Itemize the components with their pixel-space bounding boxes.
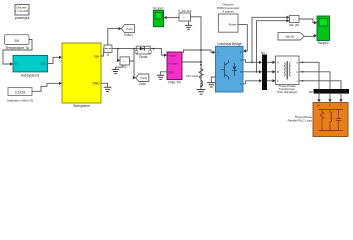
wire V_DC to ground bbox=[188, 21, 190, 25]
goto tag Goto1 bbox=[122, 25, 135, 37]
resistor DC load bbox=[199, 69, 203, 81]
svg-text:50: 50 bbox=[14, 38, 19, 43]
ground (DC load) bbox=[197, 90, 205, 95]
node a out bbox=[302, 62, 304, 64]
diode D1 bbox=[135, 46, 151, 59]
wire temperature to subsystem1 bbox=[3, 40, 32, 65]
svg-text:Filter TN: Filter TN bbox=[168, 80, 181, 84]
scope Scope1 bbox=[153, 6, 164, 26]
wire B1 to transformer C bbox=[267, 80, 274, 82]
three-phase transformer T1 bbox=[276, 56, 300, 94]
svg-text:Parallel RLC Load: Parallel RLC Load bbox=[288, 119, 313, 123]
svg-text:V_DC link: V_DC link bbox=[178, 9, 192, 13]
svg-text:I1: I1 bbox=[107, 53, 110, 57]
svg-text:Subsystem1: Subsystem1 bbox=[21, 74, 40, 78]
subsystem1 (cyan) bbox=[13, 55, 48, 77]
wire V1 to ground bbox=[116, 65, 123, 69]
svg-text:GND: GND bbox=[168, 71, 174, 74]
svg-text:Scope1: Scope1 bbox=[153, 6, 164, 10]
wire V1 output to Goto bbox=[130, 49, 136, 78]
wire V_DC to node bbox=[191, 16, 202, 18]
wire bus to V1 bbox=[118, 49, 119, 61]
node c out bbox=[302, 80, 304, 82]
node dc2 bbox=[200, 61, 202, 63]
svg-text:+ -: + - bbox=[123, 61, 126, 64]
wire B1 to transformer A bbox=[267, 61, 274, 63]
svg-text:Vp+: Vp+ bbox=[94, 55, 100, 59]
ground (bridge) bbox=[208, 83, 215, 87]
svg-text:+ Output: + Output bbox=[168, 62, 178, 65]
constant Irradiation bbox=[7, 88, 33, 103]
wire PWM to bridge g bbox=[238, 25, 247, 51]
svg-text:C: C bbox=[240, 83, 242, 86]
svg-text:B1: B1 bbox=[261, 51, 265, 55]
node dc1 bbox=[200, 49, 202, 51]
powergui block bbox=[15, 5, 30, 21]
node b out bbox=[302, 71, 304, 73]
voltage measurement V1 bbox=[120, 57, 130, 69]
svg-text:[Iout]: [Iout] bbox=[127, 27, 133, 31]
svg-text:Pulses: Pulses bbox=[229, 23, 237, 27]
wire filter GND to ground bbox=[161, 72, 168, 75]
wire Vab_B2 to scope2 bbox=[299, 19, 315, 23]
svg-text:Irradiation (W/m^2): Irradiation (W/m^2) bbox=[7, 98, 33, 102]
svg-text:4 pulses: 4 pulses bbox=[222, 9, 234, 13]
ground (yellow GND) bbox=[104, 87, 111, 91]
constant Temperature Ta bbox=[5, 35, 30, 50]
wire transformer a to B2 bbox=[299, 62, 319, 89]
svg-text:(Two Windings): (Two Windings) bbox=[277, 90, 298, 94]
wire transformer b to B2 bbox=[299, 72, 330, 89]
wire DC node to bridge + bbox=[201, 50, 214, 52]
wire I1 signal to Goto1 bbox=[108, 29, 120, 45]
wire B2 to load B bbox=[329, 94, 331, 101]
svg-text:Diode: Diode bbox=[139, 55, 148, 59]
PWM generator block bbox=[217, 2, 239, 32]
goto tag Vout bbox=[136, 74, 149, 86]
svg-text:Temperature Ta: Temperature Ta bbox=[5, 46, 29, 50]
svg-text:GND: GND bbox=[92, 82, 100, 86]
wire DC-link vertical bbox=[200, 17, 202, 89]
svg-text:DC load: DC load bbox=[186, 74, 197, 78]
node tap B bbox=[256, 71, 258, 73]
svg-text:V1: V1 bbox=[123, 65, 127, 69]
node bus-Vout bbox=[133, 48, 135, 50]
wire Vab_B1 to scope2 bbox=[304, 35, 315, 38]
node dc4 bbox=[200, 85, 202, 87]
ground (V_DC) bbox=[185, 25, 191, 29]
wire V_DC to scope1 bbox=[165, 17, 179, 19]
ground (V1) bbox=[112, 69, 119, 73]
wire filter output to DC node bbox=[182, 61, 201, 63]
svg-text:Vab_B2: Vab_B2 bbox=[289, 23, 299, 27]
wire tap B to Vab_B2 bbox=[257, 21, 288, 72]
svg-text:Scope2: Scope2 bbox=[318, 41, 329, 45]
from tag Vab_B1 bbox=[278, 33, 304, 40]
svg-text:+ -: + - bbox=[293, 19, 296, 22]
svg-text:Out1: Out1 bbox=[40, 63, 46, 66]
wire GND to ground bbox=[101, 83, 108, 86]
svg-text:s = 5e-005.: s = 5e-005. bbox=[15, 9, 29, 13]
svg-text:+ -: + - bbox=[183, 16, 186, 19]
three-phase parallel RLC load bbox=[288, 103, 348, 137]
node bus-right bbox=[153, 48, 155, 50]
svg-text:0.5139: 0.5139 bbox=[15, 90, 25, 94]
filter subsystem (magenta) bbox=[167, 52, 182, 84]
wire filter top to DC node bbox=[182, 50, 201, 52]
wire phase B bridge to B1 bbox=[243, 71, 261, 73]
svg-text:powergui: powergui bbox=[15, 16, 30, 20]
voltage measurement V_DC link bbox=[178, 9, 192, 21]
wire bridge minus to ground bbox=[211, 77, 215, 82]
node dc3 bbox=[200, 64, 202, 66]
wire Vp+ to I1 bbox=[101, 49, 104, 56]
measurement bar B2 bbox=[309, 89, 349, 94]
svg-text:Subsystem: Subsystem bbox=[73, 104, 90, 108]
wire B2 to load A bbox=[318, 94, 320, 101]
wire B2 to load C bbox=[340, 94, 342, 101]
wire phase C bridge to B1 bbox=[243, 81, 261, 84]
wire DC bus bbox=[112, 49, 165, 56]
svg-text:+ Input: + Input bbox=[168, 54, 176, 57]
measurement bar B1 bbox=[261, 51, 267, 90]
svg-text:[Vout]: [Vout] bbox=[140, 76, 147, 80]
svg-text:C: C bbox=[277, 80, 279, 83]
wire irradiation to subsystem bbox=[32, 83, 61, 91]
node tap A bbox=[251, 61, 253, 63]
voltage measurement Vab_B2 bbox=[289, 16, 299, 28]
wire phase A bridge to B1 bbox=[243, 60, 261, 63]
svg-text:Goto: Goto bbox=[139, 82, 146, 86]
ground (filter) bbox=[157, 75, 164, 79]
subsystem PV array (yellow) bbox=[62, 43, 101, 108]
svg-text:Universal Bridge: Universal Bridge bbox=[217, 42, 241, 46]
wire transformer c to B2 bbox=[299, 81, 341, 89]
svg-text:Vab_B1: Vab_B1 bbox=[285, 35, 295, 39]
wire B1 to transformer B bbox=[267, 71, 274, 73]
current measurement I1 bbox=[104, 45, 112, 57]
scope Scope2 bbox=[317, 16, 330, 45]
svg-text:B2: B2 bbox=[309, 90, 313, 94]
node bus-V1 bbox=[117, 48, 119, 50]
universal bridge U1 bbox=[216, 42, 244, 92]
wire tap A to Vab_B2 bbox=[252, 17, 288, 62]
svg-text:Goto1: Goto1 bbox=[124, 33, 133, 37]
wire subsystem1 to subsystem bbox=[48, 57, 61, 63]
